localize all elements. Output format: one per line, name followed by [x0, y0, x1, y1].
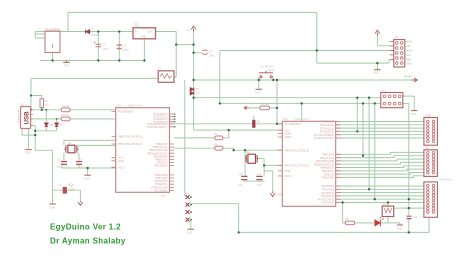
- wire jack gnd drop: [52, 53, 54, 61]
- resistor R2 (usb): [61, 117, 70, 121]
- ground symbol q1: [84, 174, 90, 176]
- svg-text:AREF: AREF: [285, 135, 293, 139]
- buzzer/resonator box: [382, 206, 394, 216]
- svg-text:PB7(XTAL2/TOSC2): PB7(XTAL2/TOSC2): [118, 142, 143, 146]
- wire +5V stem: [193, 32, 195, 131]
- wire header C row8: [394, 207, 424, 209]
- ground symbol sv right: [411, 110, 417, 112]
- IC2 pin name text rows: [285, 120, 335, 205]
- wire xtal2 line IC1: [79, 145, 116, 147]
- crystal Q1: [64, 145, 79, 153]
- svg-text:100n: 100n: [209, 54, 215, 58]
- wire usb vbus to fuse: [31, 78, 158, 109]
- svg-text:GND: GND: [285, 169, 291, 173]
- svg-text:100u: 100u: [103, 47, 109, 51]
- svg-text:R8: R8: [214, 142, 218, 146]
- wire reg out to 5v stem: [176, 44, 193, 46]
- svg-text:PD7(AIN1): PD7(AIN1): [155, 188, 168, 192]
- resistor R1 (usb): [61, 108, 70, 112]
- crystal Q2: [245, 154, 258, 163]
- node riser2 top: [362, 102, 364, 104]
- node riser1 bot: [356, 130, 358, 132]
- svg-text:Dr Ayman Shalaby: Dr Ayman Shalaby: [50, 236, 126, 245]
- node ic2 feed: [301, 102, 303, 104]
- IC1 main box: [112, 108, 175, 193]
- svg-text:GND: GND: [25, 151, 31, 155]
- gnd arrow down led1: [78, 201, 83, 206]
- node x219 bus: [219, 102, 221, 104]
- resistor R pullup: [260, 106, 270, 110]
- wire jp gnd stub: [376, 63, 378, 69]
- svg-text:AVCC: AVCC: [285, 174, 292, 178]
- svg-text:IN: IN: [135, 31, 138, 34]
- header SV1 2x4: [381, 93, 403, 108]
- node s1 left: [258, 79, 260, 81]
- wire d-reset diode stub: [253, 116, 255, 120]
- svg-text:Reset: Reset: [268, 68, 275, 72]
- wire s1 right leg: [272, 78, 274, 81]
- power led resistor: [63, 187, 67, 194]
- wire icsp vert x184.8: [184, 80, 187, 196]
- capacitor C1 (polarized): [94, 42, 102, 47]
- resistor R3 (usb pullup, vertical): [40, 99, 44, 108]
- USB text vertical: [24, 111, 31, 125]
- capacitor C8: [241, 176, 247, 179]
- wire xtal2 ic2: [264, 164, 282, 166]
- svg-text:PB6(XTAL1/TOSC1): PB6(XTAL1/TOSC1): [285, 148, 310, 152]
- wire ic2 gnd arrow: [264, 171, 273, 192]
- capacitor C9: [256, 176, 262, 179]
- svg-text:MEGA8-P: MEGA8-P: [128, 104, 142, 108]
- header A right: [424, 118, 438, 146]
- wire gnd bottom rail: [40, 60, 145, 62]
- ground symbol led2 bar: [397, 224, 403, 226]
- svg-text:PWR: PWR: [69, 188, 75, 192]
- wire usb dline2: [31, 118, 116, 120]
- wire reset line long: [174, 123, 282, 125]
- node 5v-stem-link: [192, 43, 194, 45]
- node q2 xtal2: [263, 164, 265, 166]
- fuse F1: [158, 71, 174, 83]
- wire vert x219.8: [219, 51, 221, 104]
- wire 5v to C3: [194, 52, 202, 54]
- node buzzer top: [387, 201, 389, 203]
- wire usb dline1: [31, 109, 116, 111]
- svg-text:R2 68: R2 68: [62, 113, 69, 117]
- wire icsp loop: [191, 204, 239, 233]
- svg-text:C8: C8: [239, 172, 243, 176]
- svg-text:MISO: MISO: [406, 50, 412, 53]
- wire q1 left cap drop: [63, 153, 65, 162]
- svg-text:IC2: IC2: [161, 194, 166, 198]
- svg-text:SP1: SP1: [383, 202, 388, 206]
- supply +5V arrow top: [191, 26, 196, 31]
- svg-text:GND: GND: [187, 231, 193, 235]
- ground symbol icsp: [188, 228, 194, 230]
- reset net arrow left: [244, 106, 249, 109]
- node 5v-c3: [192, 52, 194, 54]
- svg-text:IC2: IC2: [116, 104, 121, 108]
- wire zener1 stub: [45, 110, 47, 123]
- svg-text:MEGA8-P: MEGA8-P: [295, 117, 309, 121]
- pushbutton S1: [259, 71, 273, 78]
- regulator IC3 7805: [133, 28, 156, 39]
- node x408 cross: [408, 198, 410, 200]
- svg-text:PC6(RESET): PC6(RESET): [118, 110, 134, 114]
- capacitor C2: [117, 45, 122, 49]
- svg-text:AVCC: AVCC: [118, 165, 125, 169]
- pin tip dots IC1 right: [174, 113, 176, 115]
- svg-text:AD: AD: [425, 146, 429, 150]
- wire +5V long y50.5: [220, 50, 394, 52]
- IC2 main box: [278, 121, 341, 206]
- wire bus5v y97.7: [194, 97, 381, 99]
- node usb vbus: [30, 94, 32, 96]
- node zener2: [56, 118, 58, 120]
- wire usb shield gnd: [22, 129, 35, 136]
- BUS LINES right of IC2: [336, 122, 424, 225]
- svg-text:PWR: PWR: [425, 114, 431, 118]
- wire q2 right leg: [257, 158, 264, 176]
- svg-text:ARDUINO1: ARDUINO1: [439, 178, 453, 182]
- wire usb pullup branch: [31, 96, 42, 99]
- svg-text:Q2: Q2: [246, 150, 250, 154]
- svg-text:PD6(AIN0): PD6(AIN0): [155, 164, 168, 168]
- svg-text:GND: GND: [64, 64, 70, 68]
- svg-text:GND: GND: [118, 159, 124, 163]
- svg-text:PC5(ADC5/SCL): PC5(ADC5/SCL): [147, 125, 167, 129]
- svg-text:R3: R3: [45, 99, 49, 103]
- svg-text:C9: C9: [258, 172, 262, 176]
- svg-text:GND: GND: [50, 206, 56, 210]
- svg-text:22p: 22p: [57, 165, 62, 169]
- node zener1: [45, 109, 47, 111]
- node reset pullup: [276, 107, 278, 109]
- node gnd rail 1: [51, 59, 53, 61]
- svg-text:C3: C3: [209, 50, 213, 54]
- svg-text:1k5: 1k5: [45, 103, 50, 107]
- ICSP X-pin header JP: [186, 195, 190, 222]
- svg-text:R7: R7: [214, 132, 218, 136]
- svg-text:Q1: Q1: [68, 141, 72, 145]
- svg-text:3V6: 3V6: [49, 123, 54, 127]
- svg-text:PB7(XTAL2/TOSC2): PB7(XTAL2/TOSC2): [285, 164, 310, 168]
- header C right: [424, 182, 438, 217]
- capacitor C6: [61, 162, 67, 165]
- wire power led: [53, 190, 81, 204]
- svg-text:GND: GND: [411, 112, 417, 116]
- svg-text:IC1: IC1: [283, 117, 288, 121]
- svg-text:GND: GND: [397, 227, 403, 231]
- wire regulator out: [156, 32, 177, 78]
- svg-text:7805: 7805: [134, 24, 140, 28]
- IC1 pin name text rows: [118, 110, 168, 193]
- header JP1 icsp top right: [390, 40, 405, 67]
- svg-text:JP2: JP2: [185, 191, 190, 195]
- title text EgyDuino: [50, 222, 126, 245]
- vcc arrow jp1: [375, 30, 380, 36]
- svg-text:GND: GND: [406, 63, 412, 66]
- wire C2 vertical: [118, 32, 120, 61]
- resistor R led2: [345, 221, 354, 225]
- svg-text:GND: GND: [285, 132, 291, 136]
- node VIN-C1: [97, 30, 99, 32]
- svg-text:SV1: SV1: [381, 89, 386, 93]
- zener D5: [55, 123, 58, 127]
- wire q2 left leg: [245, 150, 246, 176]
- node jp gnd: [376, 62, 378, 64]
- node 5v-reset: [192, 79, 194, 81]
- diode D2 D3 pair: [190, 88, 194, 95]
- wire portc bus to header A: [336, 122, 424, 139]
- node usb gnd1: [34, 130, 36, 132]
- svg-text:F1: F1: [158, 67, 162, 71]
- node bottom left: [238, 231, 240, 233]
- svg-text:L: L: [371, 226, 373, 230]
- svg-text:R1 68: R1 68: [62, 104, 69, 108]
- svg-text:D6: D6: [257, 120, 261, 124]
- node riser3 bot: [368, 188, 370, 190]
- wire zener2 stub: [56, 119, 58, 123]
- node usb pin1: [30, 109, 32, 111]
- USB connector X1: [18, 107, 32, 129]
- wire reset net y80: [194, 79, 412, 81]
- wire riser1: [356, 98, 358, 132]
- wire s1 left leg: [258, 78, 260, 89]
- ground symbol usb: [25, 149, 31, 151]
- svg-text:D3: D3: [196, 92, 200, 96]
- svg-text:R4: R4: [59, 184, 63, 188]
- wire q1 gnd drop: [87, 168, 89, 175]
- svg-text:22p: 22p: [238, 183, 243, 187]
- capacitor C3: [202, 50, 208, 54]
- node gnd rail 4: [143, 59, 145, 61]
- wire long vert x408.8: [403, 103, 409, 232]
- svg-text:+5V: +5V: [186, 28, 191, 32]
- node reset vert top: [276, 79, 278, 81]
- svg-text:GND: GND: [373, 71, 379, 75]
- wire xtal1 ic2: [234, 149, 283, 151]
- wire bottom long gnd: [35, 131, 429, 233]
- zener D4: [45, 123, 48, 127]
- node riser1 top: [356, 97, 358, 99]
- svg-text:R5 10k: R5 10k: [261, 102, 270, 106]
- wire jp gnd row: [317, 60, 394, 63]
- svg-text:22p: 22p: [79, 165, 84, 169]
- svg-text:PB6(XTAL1/TOSC1): PB6(XTAL1/TOSC1): [118, 135, 143, 139]
- ground symbol jp1: [374, 69, 380, 70]
- node gnd rail 2: [97, 59, 99, 61]
- svg-text:GND: GND: [84, 177, 90, 181]
- svg-text:PC5(ADC5/SCL): PC5(ADC5/SCL): [314, 136, 334, 140]
- node x316 cross: [316, 49, 318, 51]
- capacitor bottom right: [407, 216, 412, 218]
- wire zener gnd rail: [35, 127, 56, 131]
- svg-text:EgyDuino Ver 1.2: EgyDuino Ver 1.2: [50, 222, 121, 231]
- wire top loop VIN: [68, 12, 317, 63]
- wire bus y103.4: [220, 102, 381, 104]
- wire usb pin4: [31, 125, 36, 130]
- node usb pullup: [41, 109, 43, 111]
- power jack X1: [45, 31, 60, 53]
- svg-text:SCK: SCK: [406, 54, 411, 57]
- svg-text:GND: GND: [276, 193, 282, 197]
- wire rxd: [174, 130, 229, 138]
- node riser4 top: [374, 102, 376, 104]
- svg-text:GND: GND: [255, 91, 261, 95]
- svg-text:D1: D1: [91, 27, 95, 31]
- diode D6 reset: [252, 120, 255, 128]
- node s1 right: [272, 79, 274, 81]
- wire regulator gnd drop: [143, 39, 145, 61]
- wire q1 right cap drop: [78, 153, 80, 162]
- svg-text:MOSI: MOSI: [406, 40, 413, 43]
- svg-text:100n: 100n: [123, 48, 129, 52]
- svg-text:C6: C6: [57, 158, 61, 162]
- wire vcc line ic2: [194, 129, 283, 131]
- wire portb staircase to header B: [336, 152, 424, 154]
- svg-text:JP1: JP1: [394, 36, 399, 40]
- svg-text:1N4004: 1N4004: [91, 33, 101, 37]
- svg-text:+5V: +5V: [406, 45, 411, 48]
- svg-text:R6: R6: [346, 217, 350, 221]
- svg-text:USB: USB: [24, 111, 31, 125]
- svg-text:OUT: OUT: [148, 31, 154, 34]
- wire q1 gnd rail: [62, 165, 116, 168]
- node led branch: [341, 201, 343, 203]
- svg-text:22p: 22p: [257, 183, 262, 187]
- wire buzzer legs: [387, 203, 389, 223]
- svg-text:X1 DCJ0202: X1 DCJ0202: [45, 27, 60, 31]
- wire R3 bottom: [41, 108, 43, 110]
- wire sv gnd bend: [403, 96, 415, 110]
- wire usb gnd sym drop: [28, 129, 30, 150]
- svg-text:X2: X2: [21, 103, 25, 107]
- ground symbol power rail: [63, 61, 70, 63]
- wire riser2: [362, 103, 364, 155]
- node usb gnd2: [34, 134, 36, 136]
- green pin labels jp1: [406, 40, 413, 65]
- wire ic2 top feed: [301, 103, 303, 121]
- resistor R txd: [215, 146, 223, 150]
- header B right: [424, 150, 438, 177]
- node riser4 bot: [374, 198, 376, 200]
- wire VIN top rail: [35, 31, 133, 33]
- node riser2 bot: [362, 155, 364, 157]
- node q1 gnd: [86, 167, 88, 169]
- gnd arrow down q2: [270, 191, 275, 196]
- node riser3 top: [368, 97, 370, 99]
- capacitor C7: [76, 162, 82, 165]
- wire reset pullup vert: [276, 80, 278, 124]
- wire reset pullup row: [249, 107, 278, 109]
- svg-text:PD7(AIN1): PD7(AIN1): [321, 201, 334, 205]
- svg-text:RESET: RESET: [404, 75, 413, 79]
- led arrows small: [69, 184, 74, 187]
- wire vcc arrow jp: [377, 36, 393, 46]
- wire led resistor branch: [343, 203, 400, 225]
- ground symbol s1: [256, 88, 262, 90]
- reset net arrow right: [412, 78, 418, 82]
- wire riser3: [368, 98, 370, 190]
- node txd join: [232, 149, 234, 151]
- svg-text:C10: C10: [413, 215, 418, 219]
- svg-text:RES: RES: [406, 59, 411, 62]
- svg-text:PC6(RESET): PC6(RESET): [285, 122, 301, 126]
- wire q2 gnd rail: [243, 180, 265, 182]
- wire riser4: [374, 103, 376, 199]
- node q2 top: [244, 149, 246, 151]
- wire portd bus to header C: [336, 186, 424, 203]
- wire xtal1 line IC1: [64, 140, 116, 145]
- svg-text:C1: C1: [103, 43, 107, 47]
- LED1 bottom: [375, 217, 384, 227]
- node VIN-C2: [118, 30, 120, 32]
- svg-text:PD6(AIN0): PD6(AIN0): [321, 176, 334, 180]
- node reset ic2: [276, 123, 278, 125]
- ground symbol led: [49, 203, 56, 205]
- node regout-link: [175, 43, 177, 45]
- node x408 bottom: [408, 231, 410, 233]
- node rxd join: [228, 129, 230, 131]
- node x408 row8: [408, 207, 410, 209]
- diode D1: [86, 30, 90, 34]
- svg-text:C7: C7: [79, 158, 83, 162]
- svg-text:3V6: 3V6: [59, 123, 64, 127]
- svg-text:GND: GND: [141, 36, 147, 39]
- svg-text:D2: D2: [196, 87, 200, 91]
- node 5v-bus: [192, 97, 194, 99]
- svg-text:C2: C2: [123, 44, 127, 48]
- wire C1 vertical: [97, 32, 99, 61]
- wire icsp gnd: [190, 219, 192, 229]
- node gnd rail 3: [118, 59, 120, 61]
- wire txd: [174, 148, 234, 150]
- resistor R rxd: [215, 136, 223, 140]
- wire jack input bracket: [35, 32, 45, 39]
